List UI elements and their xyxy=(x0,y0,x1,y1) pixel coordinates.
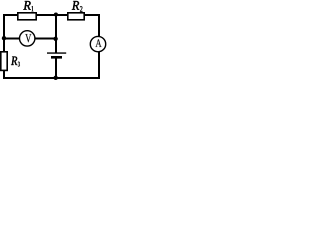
wire middle lower (battery to bottom) xyxy=(55,59,57,79)
node junction bottom battery-return xyxy=(54,76,58,80)
resistor R2 xyxy=(68,13,84,20)
wire left xyxy=(3,15,5,78)
wire top xyxy=(4,14,99,16)
resistor R3 xyxy=(1,52,7,71)
voltmeter letter V xyxy=(25,34,31,42)
wire right xyxy=(98,15,100,78)
node junction top R1-R2 xyxy=(54,13,58,17)
node junction middle voltmeter-battery xyxy=(53,37,57,41)
node junction left voltmeter tap xyxy=(2,36,6,40)
voltmeter circle xyxy=(20,31,35,46)
battery cell long plate (positive) xyxy=(47,52,66,54)
resistor R1 xyxy=(18,13,36,20)
label R2 "R" xyxy=(72,1,79,10)
battery cell short plate (negative) xyxy=(51,56,62,59)
label R1 subscript "1" xyxy=(32,6,34,11)
label R3 "R" xyxy=(11,57,17,65)
ammeter circle xyxy=(90,36,105,51)
wire voltmeter branch xyxy=(4,38,56,40)
label R1 "R" xyxy=(23,1,30,10)
label R3 subscript "3" xyxy=(18,62,20,67)
ammeter letter A xyxy=(95,39,101,47)
label R2 subscript "2" xyxy=(80,6,82,11)
wire bottom xyxy=(4,77,99,79)
wire middle upper (junction to battery) xyxy=(55,15,57,53)
